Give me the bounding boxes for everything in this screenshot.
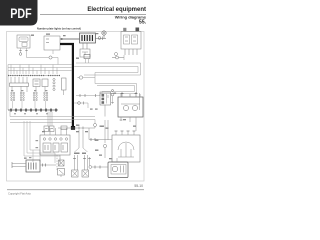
svg-text:PDF: PDF: [10, 6, 32, 21]
svg-text:55.: 55.: [139, 20, 147, 26]
svg-text:55-10: 55-10: [134, 184, 143, 188]
svg-text:Electrical equipment: Electrical equipment: [87, 7, 146, 13]
svg-text:Copyright Fiat Auto: Copyright Fiat Auto: [8, 192, 31, 196]
svg-text:Number plate lights (on key co: Number plate lights (on key control): [37, 26, 81, 30]
